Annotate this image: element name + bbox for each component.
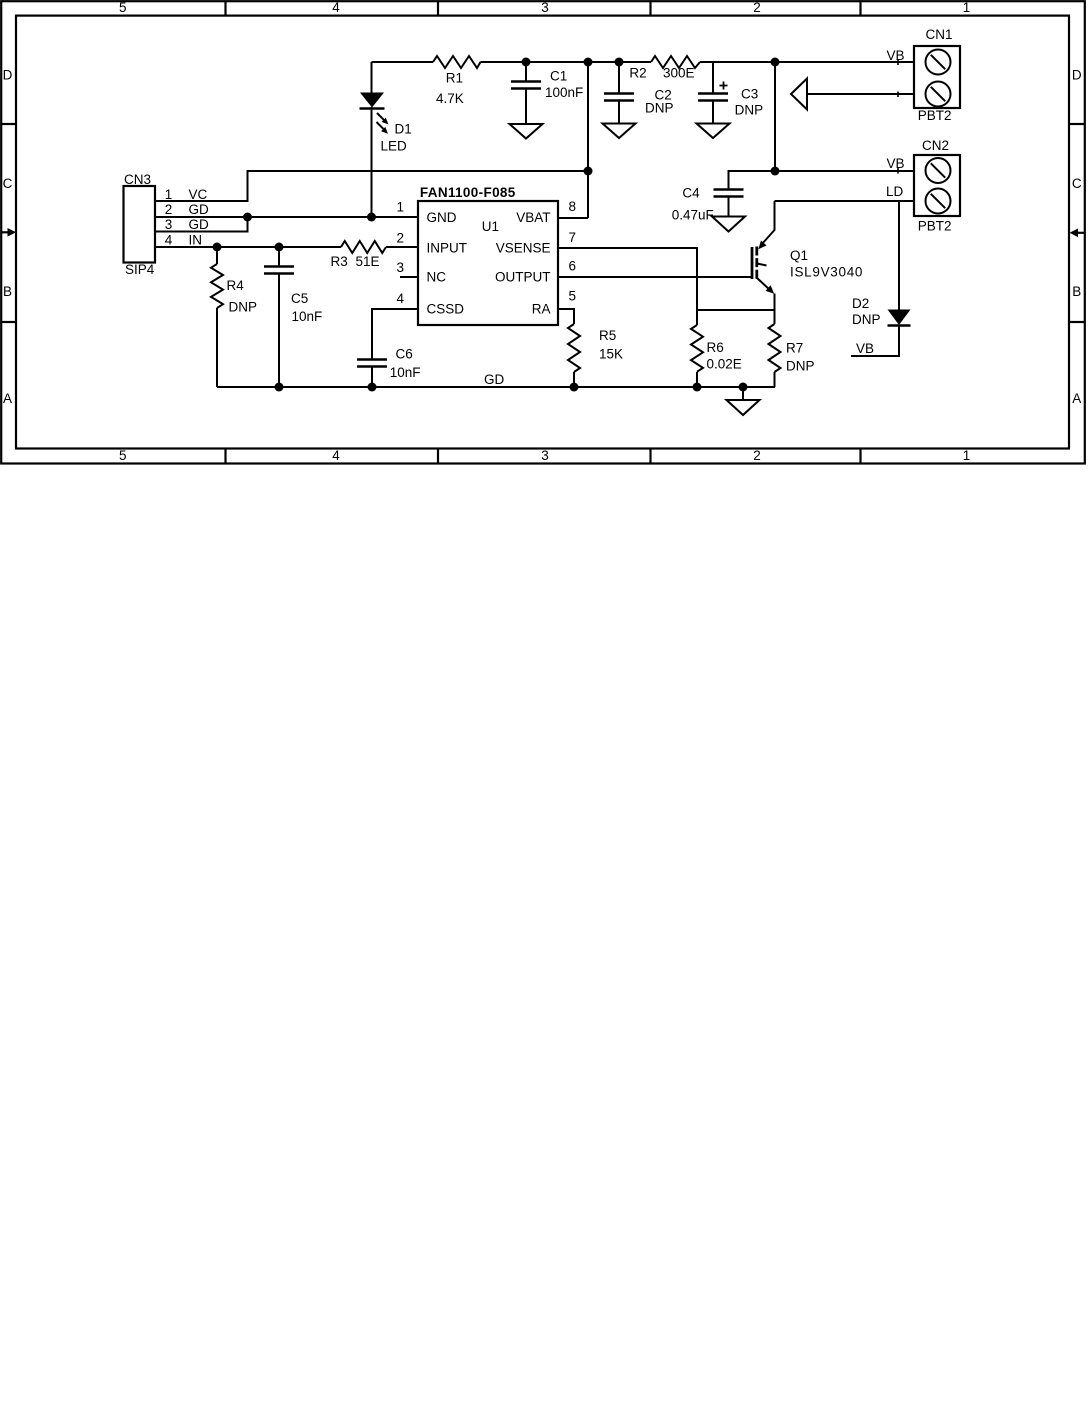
svg-text:Q1: Q1 — [790, 248, 808, 263]
wire C3 top lead — [712, 62, 714, 94]
wire C1 bottom lead — [525, 89, 527, 125]
junction VB CN2 — [771, 167, 780, 176]
svg-text:VC: VC — [189, 187, 208, 202]
svg-text:DNP: DNP — [786, 359, 815, 374]
wire D2 anode drop — [898, 201, 900, 310]
svg-text:VB: VB — [856, 341, 874, 356]
wire ground stub below GD rail — [742, 387, 744, 400]
wire CN1 pin 2 line — [807, 93, 915, 95]
wire CN3 pin 3 link — [155, 217, 248, 232]
ground under C4 — [712, 217, 745, 232]
junction C1 top — [522, 58, 531, 67]
wire U1 pin 4 to C6 — [372, 309, 418, 360]
junction ground stub — [739, 383, 748, 392]
svg-text:6: 6 — [569, 259, 577, 274]
op-amp U1 box — [418, 201, 558, 325]
svg-text:R4: R4 — [227, 278, 245, 293]
svg-text:10nF: 10nF — [390, 365, 421, 380]
junction C5 bottom — [275, 383, 284, 392]
wire R3 to U1 pin 2 — [386, 246, 418, 248]
diode D2 — [888, 310, 911, 326]
junction VBAT riser top — [584, 58, 593, 67]
svg-text:PBT2: PBT2 — [918, 108, 952, 123]
svg-text:0.02E: 0.02E — [707, 357, 742, 372]
svg-text:4: 4 — [332, 0, 340, 15]
svg-text:B: B — [3, 284, 12, 299]
svg-text:VBAT: VBAT — [516, 210, 550, 225]
svg-text:4: 4 — [165, 233, 173, 248]
svg-text:CN3: CN3 — [124, 172, 151, 187]
svg-text:CN1: CN1 — [926, 27, 953, 42]
svg-text:ISL9V3040: ISL9V3040 — [790, 265, 863, 280]
svg-text:4: 4 — [396, 291, 404, 306]
svg-text:1: 1 — [963, 448, 971, 463]
junction VC VBAT — [584, 167, 593, 176]
ground at GD rail — [727, 400, 760, 415]
capacitor C5 — [264, 267, 294, 274]
svg-text:1: 1 — [396, 200, 404, 215]
wire sense cross link — [697, 309, 775, 311]
svg-text:D2: D2 — [852, 296, 869, 311]
junction C2 top — [615, 58, 624, 67]
svg-text:4: 4 — [332, 448, 340, 463]
svg-text:GND: GND — [427, 210, 457, 225]
svg-text:GD: GD — [189, 217, 210, 232]
svg-text:GD: GD — [484, 372, 505, 387]
svg-text:5: 5 — [119, 0, 127, 15]
svg-text:VB: VB — [887, 156, 905, 171]
svg-text:4.7K: 4.7K — [436, 91, 464, 106]
junction R5 bottom — [570, 383, 579, 392]
junction R4 top — [213, 243, 222, 252]
wire C3 bottom lead — [712, 101, 714, 124]
ground under C3 — [697, 124, 730, 139]
svg-text:C3: C3 — [741, 86, 758, 101]
svg-text:LED: LED — [381, 139, 408, 154]
svg-text:C: C — [3, 176, 13, 191]
wire VB top rail middle segment — [481, 61, 652, 63]
C3 plus polarity mark — [720, 82, 728, 90]
svg-text:C6: C6 — [396, 347, 413, 362]
svg-text:10nF: 10nF — [292, 309, 323, 324]
wire C4 top lead — [728, 171, 731, 190]
wire D2 cathode to VB stub — [851, 326, 899, 357]
capacitor C4 — [714, 190, 744, 197]
CN1 input arrow — [791, 79, 807, 110]
svg-text:3: 3 — [541, 0, 549, 15]
junction C6 bottom — [368, 383, 377, 392]
connector CN2 — [914, 155, 960, 216]
capacitor C3 — [698, 94, 728, 101]
svg-text:C1: C1 — [550, 69, 567, 84]
wire U1 pin 7 VSENSE to R6 branch — [558, 248, 697, 325]
wire C6 bottom lead — [371, 367, 373, 388]
LED D1 — [360, 93, 389, 134]
wire LED anode drop — [371, 62, 373, 93]
svg-text:B: B — [1072, 284, 1081, 299]
wire U1 pin 6 OUTPUT to Q1 gate — [558, 276, 752, 278]
svg-text:CN2: CN2 — [922, 138, 949, 153]
svg-text:FAN1100-F085: FAN1100-F085 — [420, 185, 516, 200]
svg-text:GD: GD — [189, 202, 210, 217]
svg-text:R7: R7 — [786, 341, 803, 356]
wire R6 bottom lead — [696, 372, 698, 387]
svg-text:R2: R2 — [629, 66, 646, 81]
svg-text:2: 2 — [753, 448, 761, 463]
resistor R2 — [651, 56, 700, 68]
svg-text:R6: R6 — [707, 340, 724, 355]
resistor R7 — [769, 324, 781, 372]
resistor R1 — [433, 56, 481, 68]
svg-text:NC: NC — [427, 270, 447, 285]
svg-text:R5: R5 — [599, 328, 616, 343]
svg-text:VSENSE: VSENSE — [496, 241, 551, 256]
wire VB top rail right segment to CN1 pin 1 — [700, 61, 914, 63]
wire U1 pin 8 stub — [558, 217, 588, 219]
svg-text:7: 7 — [569, 230, 577, 245]
connector CN1 — [914, 46, 960, 108]
resistor R6 — [691, 325, 703, 372]
wire LD net Q1 collector to CN2 pin 2 — [775, 200, 915, 202]
svg-text:2: 2 — [753, 0, 761, 15]
svg-text:LD: LD — [886, 184, 904, 199]
svg-text:1: 1 — [963, 0, 971, 15]
wire C1 top lead — [525, 62, 527, 82]
wire VC net from CN3 pin 1 — [155, 171, 588, 201]
svg-text:C4: C4 — [682, 186, 700, 201]
wire C2 top lead — [618, 62, 620, 94]
svg-text:PBT2: PBT2 — [918, 219, 952, 234]
svg-text:5: 5 — [119, 448, 127, 463]
wire R4 bottom lead — [216, 308, 218, 387]
svg-text:15K: 15K — [599, 347, 623, 362]
wire GD net CN3 pin 2 to U1 pin 1 — [155, 216, 418, 218]
node anchor tick CN1 pin 2 — [897, 92, 899, 98]
svg-text:D1: D1 — [395, 122, 412, 137]
svg-text:0.47uF: 0.47uF — [672, 207, 714, 222]
svg-text:OUTPUT: OUTPUT — [495, 270, 551, 285]
capacitor C2 — [604, 94, 634, 101]
svg-text:DNP: DNP — [645, 101, 674, 116]
svg-text:INPUT: INPUT — [427, 241, 468, 256]
ground under C2 — [603, 124, 636, 139]
junction C5 top — [275, 243, 284, 252]
svg-text:300E: 300E — [663, 66, 695, 81]
resistor R4 — [211, 264, 223, 308]
svg-text:A: A — [3, 391, 12, 406]
wire C4 bottom lead — [728, 197, 730, 217]
resistor R5 — [568, 324, 580, 372]
svg-text:SIP4: SIP4 — [125, 262, 155, 277]
svg-text:1: 1 — [165, 187, 173, 202]
wire U1 pin 3 stub NC — [400, 276, 418, 278]
transistor Q1 — [752, 230, 775, 310]
wire GD bottom rail — [217, 386, 775, 388]
wire C2 bottom lead — [618, 101, 620, 124]
svg-text:D: D — [1072, 67, 1082, 82]
svg-text:DNP: DNP — [852, 312, 881, 327]
svg-text:C5: C5 — [291, 291, 308, 306]
node VB anchor tick CN2 — [897, 168, 899, 174]
junction LED GND — [367, 213, 376, 222]
resistor R3 — [341, 241, 386, 253]
ground under C1 — [510, 124, 543, 139]
svg-text:100nF: 100nF — [545, 85, 583, 100]
wire R4 top lead — [216, 247, 218, 264]
wire IN net CN3 pin 4 to R3 — [155, 246, 341, 248]
junction R6 bottom — [693, 383, 702, 392]
svg-text:U1: U1 — [482, 219, 499, 234]
svg-text:C: C — [1072, 176, 1082, 191]
junction CN3 pin 3 tie — [243, 213, 252, 222]
node VB anchor tick CN1 — [897, 60, 899, 66]
wire R5 bottom lead — [573, 372, 575, 387]
svg-text:3: 3 — [396, 260, 404, 275]
svg-text:R3: R3 — [331, 254, 348, 269]
svg-text:3: 3 — [541, 448, 549, 463]
capacitor C1 — [511, 82, 541, 89]
svg-text:RA: RA — [532, 302, 551, 317]
svg-text:3: 3 — [165, 217, 173, 232]
svg-text:D: D — [3, 67, 13, 82]
svg-text:CSSD: CSSD — [427, 302, 465, 317]
wire C5 bottom lead — [278, 274, 280, 388]
svg-text:VB: VB — [887, 48, 905, 63]
connector CN3 — [124, 186, 156, 263]
svg-text:51E: 51E — [356, 254, 380, 269]
wire VBAT vertical riser — [587, 62, 589, 218]
wire C5 top lead — [278, 247, 280, 267]
svg-text:A: A — [1072, 391, 1081, 406]
svg-text:2: 2 — [165, 202, 173, 217]
svg-text:5: 5 — [569, 289, 577, 304]
svg-text:2: 2 — [396, 231, 404, 246]
svg-text:DNP: DNP — [229, 300, 258, 315]
junction VB riser top — [771, 58, 780, 67]
wire Q1 collector vertical — [774, 201, 776, 231]
svg-text:8: 8 — [569, 199, 577, 214]
wire R7 top lead — [774, 310, 776, 324]
capacitor C6 — [357, 360, 387, 367]
wire VB net to CN2 pin 1 — [729, 170, 914, 172]
wire LED cathode to GND net — [371, 107, 373, 217]
wire VB top rail left segment — [372, 61, 434, 63]
wire VB riser to CN2 — [774, 62, 776, 171]
svg-text:IN: IN — [189, 233, 203, 248]
wire R7 bottom lead — [774, 372, 776, 387]
wire U1 pin 5 RA to R5 — [558, 309, 574, 324]
svg-text:R1: R1 — [446, 70, 463, 85]
svg-text:DNP: DNP — [735, 102, 764, 117]
